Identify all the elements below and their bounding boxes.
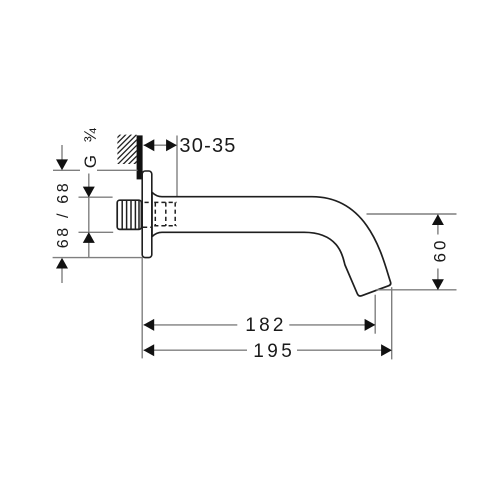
wall hatching <box>100 105 150 198</box>
dimension 68 outer: top leader and arrow <box>61 145 63 160</box>
escutcheon plate <box>142 171 152 258</box>
svg-text:G ¾: G ¾ <box>81 127 100 168</box>
arrow 30-35 right <box>166 139 177 151</box>
arrow inner bottom (points up) <box>83 232 95 243</box>
wall face thick line <box>137 135 143 179</box>
tick at pipe top <box>79 196 113 198</box>
dimension 68 inner: vertical line <box>88 174 90 258</box>
dimension 60: line segments <box>437 215 439 235</box>
arrow 195 right <box>381 344 392 356</box>
svg-text:182: 182 <box>245 315 283 336</box>
arrow 30-35 left <box>144 139 155 151</box>
extension line 195 right <box>391 287 393 359</box>
arrow 182 right <box>365 319 376 331</box>
dimension line 195 <box>144 349 247 351</box>
tick at pipe bottom <box>79 231 114 233</box>
dimension 60: extension ticks <box>367 213 457 215</box>
threaded connector G3/4 <box>117 200 141 229</box>
hidden pipe dashed outline <box>143 202 177 227</box>
svg-text:195: 195 <box>253 341 292 362</box>
extension line wall face bottom <box>141 258 143 359</box>
extension line 182 right <box>374 295 376 334</box>
arrow 60 bottom (points down) <box>432 279 444 290</box>
svg-text:30-35: 30-35 <box>179 135 235 157</box>
dimension line 30-35 <box>144 144 178 146</box>
extension line G3/4 top <box>53 169 138 171</box>
arrow 182 left <box>143 319 154 331</box>
spout body <box>152 192 391 296</box>
arrow inner top (points down) <box>83 187 95 198</box>
arrow 195 left <box>143 344 154 356</box>
arrow 60 top (points up) <box>432 214 444 225</box>
bottom extension line (plate bottom) <box>53 257 143 259</box>
dimension 68 outer: bottom leader and arrow <box>61 269 63 284</box>
extension line 30-35 right <box>176 136 178 202</box>
dimension line 182 <box>144 324 238 326</box>
